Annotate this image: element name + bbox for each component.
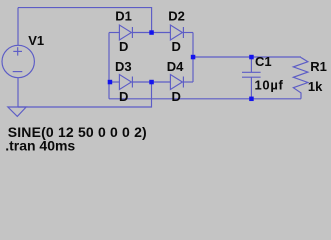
svg-text:V1: V1 [28,33,44,48]
wire row1 segment mid [132,32,170,34]
ground [8,107,26,116]
svg-text:10µf: 10µf [255,77,284,92]
diode D1 [119,25,131,40]
svg-text:D1: D1 [115,9,132,24]
node C1 top junction [249,55,254,60]
diode D3 [119,75,131,90]
svg-text:D: D [119,89,128,104]
voltage source V1 [2,45,34,77]
wire row2 segment right [183,81,193,83]
svg-text:D: D [119,39,128,54]
diode D2 [170,25,182,40]
wire V1 plus to bridge AC top node [18,8,152,33]
node AC bottom junction [149,80,154,85]
svg-text:1k: 1k [308,79,323,94]
wire row2 segment left [109,81,119,83]
wire bridge right vertical [192,33,194,83]
wire row1 segment left [109,32,119,34]
svg-text:D3: D3 [115,59,132,74]
resistor R1 [293,57,308,99]
svg-text:.tran 40ms: .tran 40ms [5,137,75,152]
svg-text:C1: C1 [255,54,272,69]
wire row1 segment right [183,32,193,34]
wire bridge left vertical [108,33,110,99]
node AC top junction [149,30,154,35]
wire ground run to bridge AC bottom node [18,82,152,107]
svg-text:R1: R1 [310,59,327,74]
svg-text:D: D [172,39,181,54]
svg-text:D2: D2 [168,9,185,24]
wire V1 top lead [17,8,19,46]
node DC plus right junction [191,55,196,60]
svg-text:D: D [172,89,181,104]
capacitor C1 [250,57,252,72]
node DC minus left junction [108,80,113,85]
wire row2 segment mid [132,81,170,83]
wire DC minus bottom [109,98,301,100]
wire V1 minus down to ground [17,78,19,107]
svg-text:D4: D4 [167,59,184,74]
node C1 bottom junction [249,97,254,102]
wire DC plus to load [193,56,301,58]
diode D4 [170,75,182,90]
